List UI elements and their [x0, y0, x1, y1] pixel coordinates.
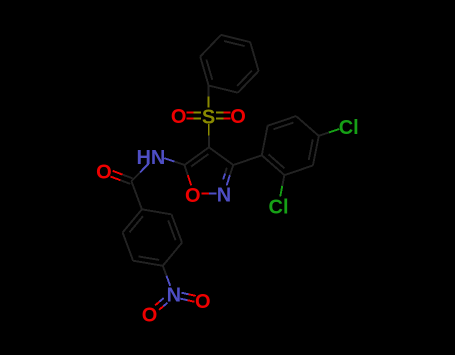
benzene ring (phenylsulfonyl phenyl): [200, 57, 208, 86]
bond NH-C carbonyl: [140, 164, 149, 173]
svg-text:O: O: [142, 305, 158, 327]
svg-text:N: N: [167, 285, 181, 307]
amide C=O: [123, 175, 133, 179]
bond C2-Cl: [282, 175, 284, 186]
dichlorophenyl ring: [262, 155, 285, 175]
svg-text:O: O: [171, 106, 187, 128]
svg-text:HN: HN: [136, 147, 165, 169]
svg-text:O: O: [195, 291, 211, 313]
svg-text:S: S: [202, 106, 215, 128]
sulfonyl S=O left: [194, 112, 201, 114]
svg-text:N: N: [217, 184, 231, 206]
isoxazole ring: [185, 147, 209, 165]
bond phenyl-S: [208, 86, 210, 97]
bond isoxazole C3 - dichlorophenyl: [233, 155, 261, 165]
sulfonyl S=O right: [216, 118, 223, 120]
nitro N=O lower: [159, 298, 163, 302]
svg-text:O: O: [96, 162, 112, 184]
bond C5-NH amide: [174, 162, 184, 166]
svg-text:O: O: [230, 106, 246, 128]
nitrobenzene ring: [123, 209, 142, 232]
bond S-C4 isoxazole: [208, 124, 210, 136]
bond benzene-N nitro: [163, 266, 167, 276]
svg-text:Cl: Cl: [339, 117, 359, 139]
nitro N=O right: [180, 299, 187, 301]
svg-text:O: O: [185, 185, 201, 207]
bond carbonyl-benzene C1: [131, 181, 142, 209]
svg-text:Cl: Cl: [269, 196, 289, 218]
bond C4-Cl: [319, 133, 329, 136]
